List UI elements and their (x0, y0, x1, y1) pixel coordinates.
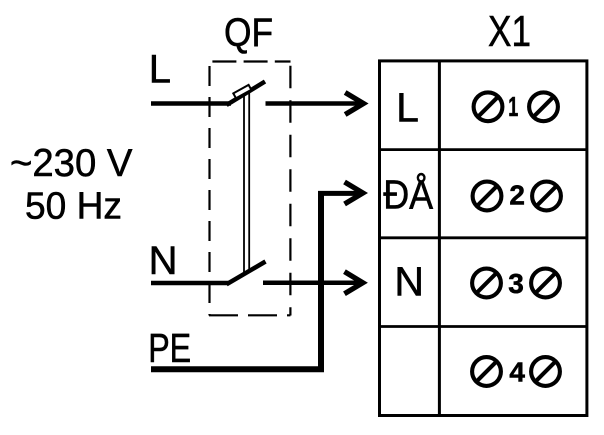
svg-text:~230 V: ~230 V (10, 142, 133, 185)
X1 row divider 2-3 (380, 236, 587, 239)
svg-text:1: 1 (508, 91, 518, 122)
X1 terminal 1 right screw (529, 92, 558, 121)
svg-text:PE: PE (148, 325, 191, 371)
breaker QF release rectangle (233, 85, 251, 98)
breaker QF dashed enclosure (209, 62, 291, 316)
breaker QF mechanical linkage (244, 88, 249, 274)
X1 terminal 4 right screw (531, 357, 560, 386)
arrow into X1 terminal 3 (343, 269, 368, 296)
wire L input (151, 101, 231, 106)
breaker QF pole 2 blade (227, 262, 266, 285)
svg-text:N: N (149, 239, 178, 283)
svg-text:X1: X1 (488, 7, 531, 56)
terminal block X1 outline (380, 61, 587, 416)
wire N input (151, 281, 229, 286)
svg-text:2: 2 (509, 180, 525, 211)
svg-text:N: N (394, 259, 424, 305)
arrow into X1 terminal 2 (343, 180, 368, 207)
X1 terminal 3 right screw (531, 269, 560, 298)
breaker QF pole 1 blade (227, 82, 266, 106)
wire QF to X1 terminal 3 (263, 281, 361, 286)
X1 terminal 4 left screw (472, 357, 501, 386)
wire PE with riser (151, 193, 321, 369)
X1 terminal 3 left screw (472, 269, 501, 298)
supply label ~230 V 50 Hz (10, 142, 133, 227)
X1 terminal 1 left screw (474, 92, 503, 121)
svg-text:QF: QF (224, 11, 273, 55)
wire QF to X1 terminal 1 (266, 101, 363, 106)
svg-text:L: L (396, 85, 419, 131)
svg-text:L: L (149, 48, 171, 92)
svg-text:50 Hz: 50 Hz (25, 185, 122, 227)
X1 label column divider (438, 61, 441, 416)
svg-text:ĐÅ: ĐÅ (383, 171, 434, 217)
X1 terminal 2 left screw (473, 182, 502, 211)
arrow into X1 terminal 1 (344, 90, 369, 117)
svg-text:3: 3 (508, 268, 524, 299)
X1 row divider 1-2 (380, 148, 587, 151)
wire PE to X1 terminal 2 (318, 191, 362, 196)
X1 row divider 3-4 (380, 325, 587, 328)
X1 terminal 2 right screw (532, 182, 561, 211)
svg-text:4: 4 (509, 356, 525, 387)
